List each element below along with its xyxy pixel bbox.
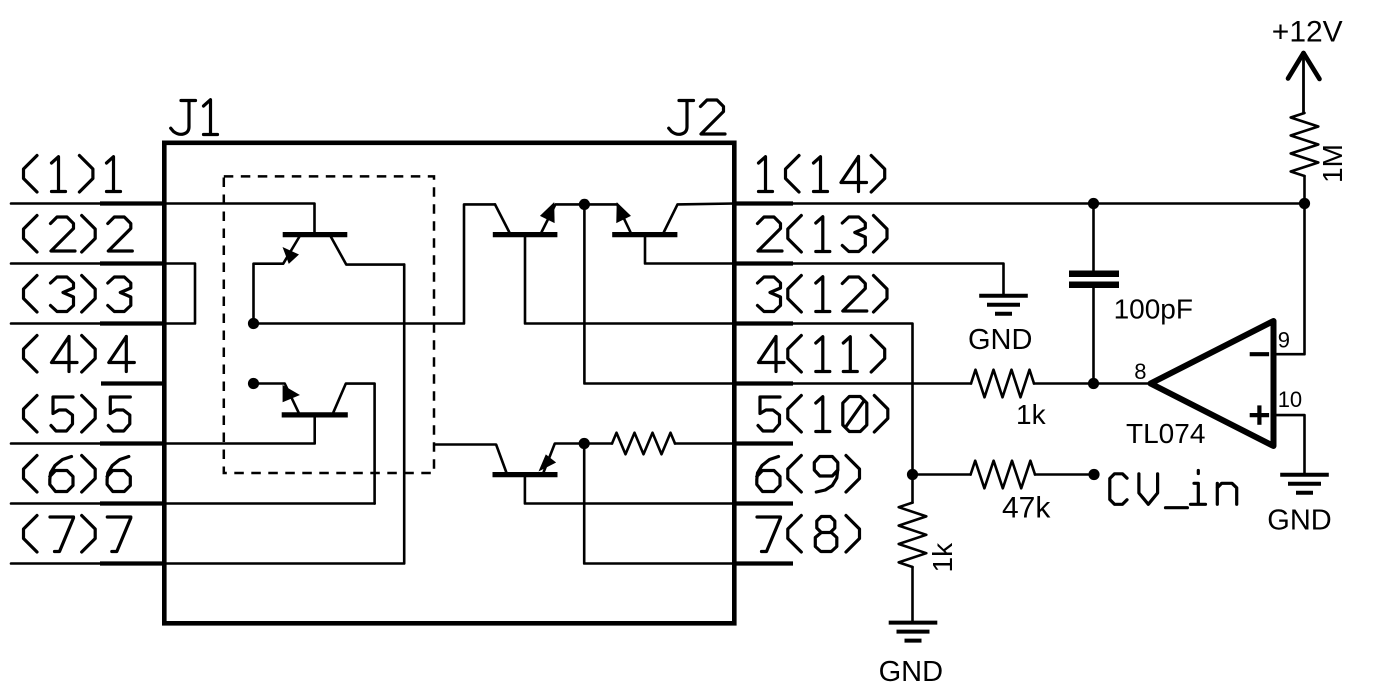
- transistor Q1 emitter: [254, 237, 300, 324]
- pin 5(10) J2 stub: [734, 441, 793, 445]
- resistor 1k lower: [899, 503, 927, 567]
- label CV_in: [1110, 471, 1237, 508]
- pin label 7(8): [757, 516, 860, 553]
- label J2: [669, 100, 725, 134]
- resistor 1k: [971, 370, 1034, 398]
- transistor Q2 collector diag: [495, 204, 509, 232]
- pin 5 J1 stub: [100, 441, 164, 445]
- node Q5 emitter junction: [579, 438, 590, 449]
- pin label (4)4: [24, 336, 135, 373]
- svg-text:TL074: TL074: [1126, 418, 1205, 449]
- ground pin 2(13): [979, 296, 1028, 314]
- svg-text:1k: 1k: [1016, 399, 1047, 430]
- wire pin 2 left lead: [11, 262, 103, 265]
- transistor Q5 base bar: [493, 472, 558, 477]
- transistor Q2 emitter: [542, 204, 585, 232]
- transistor Q2 base bar: [493, 232, 558, 237]
- pin 1(14) J2 stub: [734, 201, 793, 205]
- transistor Q1 collector: [331, 237, 404, 265]
- wire cap lower lead: [1092, 288, 1095, 384]
- pin 2(13) J2 stub: [734, 261, 793, 265]
- wire Q2 base to pin 3(12): [525, 237, 734, 324]
- +12V power arrow: [1288, 53, 1320, 113]
- svg-text:100pF: 100pF: [1114, 294, 1193, 325]
- node pin3 row junction: [248, 318, 259, 329]
- wire Q4 base to pin 5: [164, 417, 314, 443]
- wire pin2-pin3 link loop: [164, 264, 195, 324]
- wire pin 5 left lead: [11, 442, 103, 445]
- wire pin 7 left lead: [11, 562, 103, 565]
- pin 4(11) J2 stub: [734, 381, 793, 385]
- pin 4 J1 stub: [101, 381, 164, 385]
- transistor Q3 emitter arrow: [617, 203, 630, 222]
- pin label 4(11): [759, 336, 885, 373]
- wire 47k to CV node: [1035, 473, 1088, 476]
- transistor Q3 collector: [664, 204, 734, 233]
- transistor Q4 emitter arrow: [283, 386, 299, 402]
- ground op-amp plus: [1280, 475, 1329, 493]
- pin 6 J1 stub: [100, 501, 164, 505]
- transistor Q1 emitter arrow: [283, 248, 298, 263]
- pin 1 J1 stub: [100, 201, 164, 205]
- wire cap upper lead: [1092, 204, 1095, 271]
- wire 1M to node: [1303, 176, 1306, 204]
- pin label 5(10): [758, 396, 888, 433]
- wire pin 1 left lead: [11, 202, 103, 205]
- transistor Q1 base bar: [283, 232, 348, 237]
- pin label 6(9): [757, 456, 860, 493]
- transistor Q2 emitter arrow: [541, 203, 554, 222]
- svg-text:1M: 1M: [1317, 144, 1348, 183]
- pin 2 J1 stub: [100, 261, 164, 265]
- node pin4 emitter junction: [248, 378, 259, 389]
- node CV_in: [1088, 469, 1099, 480]
- wire internal resistor to pin 5(10): [675, 442, 734, 445]
- wire 1k to ground: [911, 567, 914, 621]
- svg-text:1k: 1k: [927, 542, 958, 573]
- transistor Q4 base bar: [282, 412, 348, 417]
- wire pin 2(13) to ground: [791, 264, 1004, 294]
- transistor Q5 emitter: [544, 444, 585, 472]
- pin label 2(13): [758, 216, 888, 253]
- svg-text:47k: 47k: [1002, 491, 1051, 524]
- transistor Q5 collector: [436, 445, 506, 473]
- svg-text:8: 8: [1134, 359, 1146, 384]
- pin 7(8) J2 stub: [734, 561, 793, 565]
- wire op-amp plus to ground: [1274, 415, 1305, 473]
- svg-text:9: 9: [1278, 328, 1290, 353]
- label J1: [171, 100, 218, 135]
- pin label 3(12): [758, 276, 888, 313]
- wire pin 1(14) net: [791, 202, 1305, 205]
- wire Q5 emitter junction to pin 7(8): [584, 444, 734, 564]
- pin label (1)1: [24, 156, 121, 193]
- wire pin 3(12) to divider: [791, 324, 913, 503]
- node divider junction: [907, 469, 918, 480]
- node cap top junction: [1088, 198, 1099, 209]
- transistor Q4 emitter: [254, 384, 299, 413]
- resistor internal emitter: [612, 433, 675, 455]
- wire pin 7 to Q1 collector: [164, 265, 404, 564]
- wire op-amp minus feedback: [1274, 204, 1305, 355]
- resistor 47k: [971, 461, 1035, 489]
- dashed matched-pair box: [224, 176, 434, 473]
- capacitor 100pF: [1069, 274, 1119, 285]
- wire Q5 base to pin 6(9): [525, 477, 734, 503]
- pin 7 J1 stub: [100, 561, 164, 565]
- pin label (5)5: [24, 396, 131, 433]
- wire pin 6 left lead: [11, 502, 103, 505]
- connector body box J1/J2: [164, 143, 734, 624]
- ground divider: [889, 623, 938, 641]
- transistor Q4 collector: [333, 384, 374, 504]
- wire emitter junction to pin 4(11): [584, 204, 734, 383]
- op-amp U1 TL074 triangle: [1151, 321, 1274, 446]
- pin label (6)6: [24, 456, 131, 493]
- wire Q3 base to pin 2(13): [645, 237, 734, 264]
- pin label 1(14): [759, 156, 885, 193]
- wire pin 1 to Q1 base: [164, 204, 314, 233]
- svg-text:GND: GND: [1267, 504, 1331, 536]
- transistor Q3 base bar: [612, 232, 677, 237]
- wire pin 4(11) lead: [791, 382, 971, 385]
- node Q2-Q3 emitter junction: [579, 199, 590, 210]
- node 1M junction: [1299, 198, 1310, 209]
- node cap bottom junction: [1088, 378, 1099, 389]
- wire pin 3 left lead: [11, 322, 103, 325]
- wire pin 6 to Q4 collector: [164, 502, 374, 505]
- pin 3(12) J2 stub: [734, 321, 793, 325]
- transistor Q5 emitter arrow: [540, 455, 556, 470]
- transistor Q3 emitter: [584, 204, 630, 232]
- svg-text:GND: GND: [879, 656, 943, 688]
- wire divider to 47k: [913, 473, 971, 476]
- op-amp minus input mark: [1250, 352, 1269, 356]
- wire 1k to op-amp: [1034, 382, 1151, 385]
- svg-text:+12V: +12V: [1272, 15, 1343, 48]
- wire emitter bus to Q2 collector: [254, 204, 496, 323]
- op-amp plus input mark: [1250, 405, 1269, 424]
- pin label (3)3: [24, 276, 131, 313]
- resistor 1M: [1291, 113, 1319, 176]
- svg-text:GND: GND: [968, 324, 1032, 356]
- pin 3 J1 stub: [100, 321, 164, 325]
- pin label (7)7: [24, 516, 131, 553]
- wire Q5 emitter junction lead: [584, 442, 612, 445]
- svg-text:10: 10: [1278, 387, 1302, 412]
- pin 6(9) J2 stub: [734, 501, 793, 505]
- pin label (2)2: [24, 216, 133, 253]
